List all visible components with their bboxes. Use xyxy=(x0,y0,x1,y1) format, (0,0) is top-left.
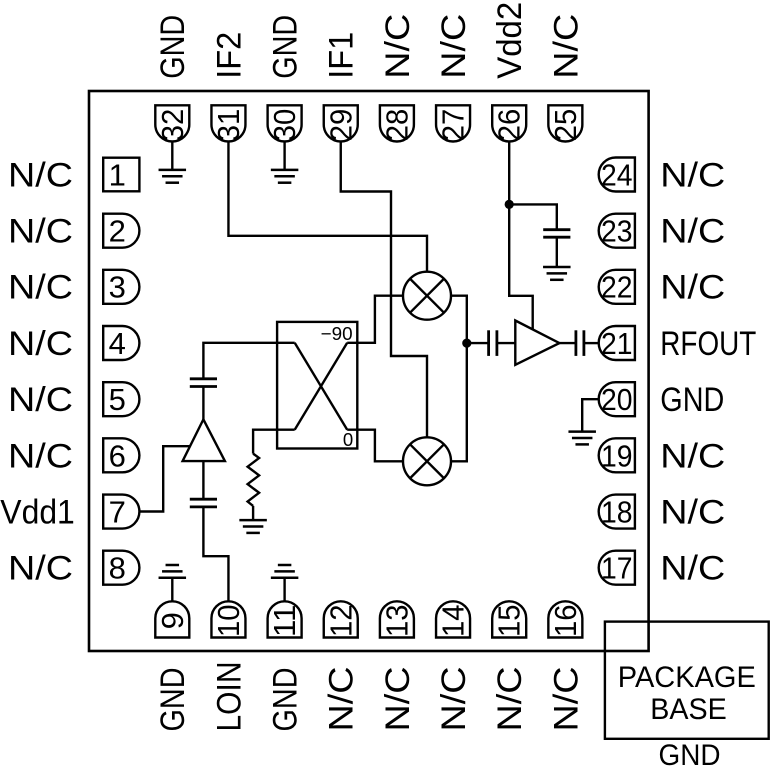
wire hybrid -90 port to mixer M1 xyxy=(347,296,403,343)
svg-text:PACKAGE: PACKAGE xyxy=(618,662,756,694)
svg-text:N/C: N/C xyxy=(660,213,725,251)
svg-text:N/C: N/C xyxy=(491,667,529,732)
node dot RF sum xyxy=(462,339,471,348)
svg-text:GND: GND xyxy=(267,15,305,79)
svg-text:8: 8 xyxy=(109,551,126,586)
svg-text:IF2: IF2 xyxy=(210,32,248,79)
capacitor C3 xyxy=(489,330,497,356)
svg-text:−90: −90 xyxy=(321,323,353,344)
svg-text:32: 32 xyxy=(155,109,190,142)
wire node to C3 xyxy=(467,342,489,344)
pin 4 xyxy=(103,326,139,361)
ground at pin 20 xyxy=(568,432,596,445)
package base box xyxy=(605,622,769,739)
pin 5 xyxy=(103,382,139,417)
svg-text:N/C: N/C xyxy=(8,325,73,363)
svg-text:N/C: N/C xyxy=(660,156,725,194)
svg-text:5: 5 xyxy=(109,382,126,417)
pin 30 xyxy=(267,105,302,141)
wire hybrid port 0 to resistor R1 xyxy=(253,430,295,454)
svg-text:3: 3 xyxy=(109,270,126,305)
svg-text:23: 23 xyxy=(601,214,633,249)
wire pin20 to ground xyxy=(582,399,598,431)
svg-text:N/C: N/C xyxy=(8,381,73,419)
pin 8 xyxy=(103,551,139,586)
svg-text:14: 14 xyxy=(436,605,471,638)
svg-text:15: 15 xyxy=(492,605,527,638)
pin 3 xyxy=(103,270,139,305)
svg-text:20: 20 xyxy=(601,382,633,417)
svg-text:4: 4 xyxy=(109,326,126,361)
svg-text:GND: GND xyxy=(267,668,305,732)
pin 20 xyxy=(599,382,635,417)
wire U1 to C2 xyxy=(202,461,204,499)
svg-text:12: 12 xyxy=(323,605,358,638)
svg-text:N/C: N/C xyxy=(660,493,725,531)
svg-text:28: 28 xyxy=(379,109,414,142)
op-amp U1 LO buffer xyxy=(183,419,225,461)
ground at pin 32 xyxy=(159,170,187,183)
pin 32 xyxy=(155,105,190,141)
mixer M1 (I) xyxy=(403,272,451,320)
svg-text:26: 26 xyxy=(492,109,527,142)
svg-text:29: 29 xyxy=(323,109,358,142)
wire pin32 to ground xyxy=(171,142,173,170)
capacitor C1 xyxy=(190,379,217,387)
pin 23 xyxy=(599,214,635,249)
wire C3 to U2 xyxy=(497,342,515,344)
pin 6 xyxy=(103,438,139,473)
resistor R1 xyxy=(248,454,260,506)
svg-text:GND: GND xyxy=(154,15,192,79)
svg-text:IF1: IF1 xyxy=(323,32,361,79)
wire pin11 to ground xyxy=(283,578,285,602)
svg-text:N/C: N/C xyxy=(379,667,417,732)
svg-text:18: 18 xyxy=(601,494,633,529)
ground at pin 9 xyxy=(159,565,187,578)
wire C1 to hybrid port -90 input xyxy=(203,343,294,379)
svg-text:10: 10 xyxy=(211,605,246,638)
pin 7 xyxy=(103,494,139,529)
svg-text:Vdd1: Vdd1 xyxy=(0,493,75,531)
op-amp U2 RF output amp xyxy=(515,321,559,365)
wire Vdd2 pin26 to U2 xyxy=(509,142,533,330)
wire Vdd1 pin7 to U1 xyxy=(139,446,190,511)
svg-text:GND: GND xyxy=(154,668,192,732)
svg-text:N/C: N/C xyxy=(323,667,361,732)
pin 12 xyxy=(323,601,358,637)
pin 31 xyxy=(211,105,246,141)
pin 21 xyxy=(599,326,635,361)
node dot Vdd2 xyxy=(505,200,514,209)
pin 1 xyxy=(103,157,139,192)
ground at pin 30 xyxy=(271,170,299,183)
svg-text:GND: GND xyxy=(659,740,721,772)
wire IF2 pin31 to mixer M1 xyxy=(228,142,427,272)
pin 19 xyxy=(599,438,635,473)
svg-text:N/C: N/C xyxy=(8,269,73,307)
capacitor C5 xyxy=(543,230,570,238)
ground at R1 xyxy=(239,520,267,533)
pin 17 xyxy=(599,551,635,586)
wire IF1 pin29 to mixer M2 xyxy=(341,142,427,438)
wire R1 to ground xyxy=(252,506,254,520)
svg-text:N/C: N/C xyxy=(379,14,417,79)
svg-text:30: 30 xyxy=(267,109,302,142)
svg-text:2: 2 xyxy=(109,214,126,249)
wire mixer M1 to node xyxy=(451,296,467,343)
svg-text:LOIN: LOIN xyxy=(210,662,248,732)
pin 28 xyxy=(379,105,414,141)
svg-text:N/C: N/C xyxy=(660,437,725,475)
svg-text:N/C: N/C xyxy=(8,213,73,251)
svg-text:N/C: N/C xyxy=(660,550,725,588)
svg-text:N/C: N/C xyxy=(8,437,73,475)
package outline xyxy=(89,91,649,651)
ground at pin 11 xyxy=(271,565,299,578)
pin 10 xyxy=(211,601,246,637)
svg-text:BASE: BASE xyxy=(650,694,727,726)
svg-text:N/C: N/C xyxy=(547,14,585,79)
svg-text:N/C: N/C xyxy=(435,14,473,79)
svg-text:N/C: N/C xyxy=(435,667,473,732)
wire hybrid 0 port to mixer M2 xyxy=(347,430,403,462)
quadrature hybrid box xyxy=(277,322,357,449)
svg-text:17: 17 xyxy=(601,551,633,586)
capacitor C2 xyxy=(190,499,217,507)
wire C2 to pin10 LOIN xyxy=(203,507,228,601)
pin 27 xyxy=(436,105,471,141)
wire U2 to C4 xyxy=(559,342,576,344)
svg-text:9: 9 xyxy=(155,612,190,629)
svg-text:22: 22 xyxy=(601,270,633,305)
wire Vdd2 node to C5 xyxy=(509,204,557,229)
pin 25 xyxy=(548,105,583,141)
pin 13 xyxy=(379,601,414,637)
svg-text:RFOUT: RFOUT xyxy=(660,325,756,363)
wire C4 to pin21 RFOUT xyxy=(584,342,599,344)
mixer M2 (Q) xyxy=(403,437,451,485)
pin 2 xyxy=(103,214,139,249)
ground at C5 xyxy=(543,267,571,280)
svg-text:7: 7 xyxy=(109,494,126,529)
svg-text:13: 13 xyxy=(379,605,414,638)
svg-text:11: 11 xyxy=(267,605,302,638)
wire C1 to U1 xyxy=(202,387,204,420)
svg-text:N/C: N/C xyxy=(547,667,585,732)
svg-text:31: 31 xyxy=(211,109,246,142)
svg-text:27: 27 xyxy=(436,109,471,142)
wire pin9 to ground xyxy=(171,578,173,602)
svg-text:Vdd2: Vdd2 xyxy=(491,2,529,79)
svg-text:0: 0 xyxy=(343,429,353,450)
svg-text:1: 1 xyxy=(109,157,126,192)
svg-text:N/C: N/C xyxy=(8,550,73,588)
pin 9 xyxy=(155,601,190,637)
svg-text:N/C: N/C xyxy=(660,269,725,307)
pin 29 xyxy=(323,105,358,141)
capacitor C4 xyxy=(576,330,584,356)
pin 24 xyxy=(599,157,635,192)
pin 22 xyxy=(599,270,635,305)
wire pin30 to ground xyxy=(283,142,285,170)
wire C5 to ground xyxy=(556,237,558,267)
svg-text:N/C: N/C xyxy=(8,156,73,194)
pin 18 xyxy=(599,494,635,529)
wire mixer M2 to node xyxy=(451,343,467,461)
pin 11 xyxy=(267,601,302,637)
svg-text:16: 16 xyxy=(548,605,583,638)
svg-text:24: 24 xyxy=(601,157,633,192)
svg-text:GND: GND xyxy=(660,381,724,419)
svg-text:6: 6 xyxy=(109,438,126,473)
svg-text:25: 25 xyxy=(548,109,583,142)
pin 15 xyxy=(492,601,527,637)
svg-text:21: 21 xyxy=(601,326,633,361)
pin 14 xyxy=(436,601,471,637)
pin 16 xyxy=(548,601,583,637)
svg-text:19: 19 xyxy=(601,438,633,473)
pin 26 xyxy=(492,105,527,141)
